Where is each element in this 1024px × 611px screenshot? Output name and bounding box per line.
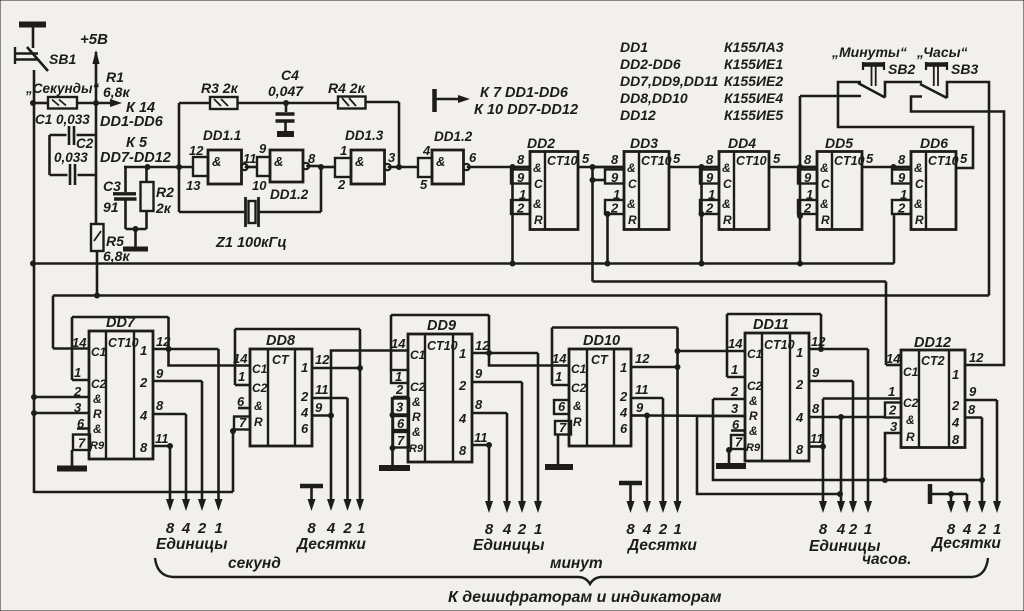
svg-text:CT10: CT10 (736, 154, 767, 168)
svg-text:8: 8 (611, 152, 619, 167)
svg-text:9: 9 (611, 170, 619, 185)
svg-text:14: 14 (552, 351, 567, 366)
svg-text:DD1.1: DD1.1 (203, 128, 241, 143)
svg-text:Десятки: Десятки (930, 535, 1001, 552)
svg-text:&: & (906, 413, 915, 427)
svg-text:8: 8 (517, 152, 525, 167)
svg-text:&: & (627, 197, 636, 211)
svg-text:R: R (915, 213, 924, 227)
svg-text:&: & (533, 197, 542, 211)
svg-text:Десятки: Десятки (626, 537, 697, 554)
svg-text:Единицы: Единицы (156, 536, 227, 553)
svg-text:DD1.2: DD1.2 (270, 187, 309, 202)
svg-text:&: & (820, 161, 829, 175)
svg-text:6: 6 (397, 416, 405, 431)
svg-text:1: 1 (952, 367, 959, 382)
svg-text:9: 9 (259, 141, 267, 156)
svg-text:R: R (628, 213, 637, 227)
svg-text:1: 1 (140, 343, 147, 358)
svg-text:4: 4 (619, 405, 628, 420)
svg-text:1: 1 (340, 143, 347, 158)
svg-text:6: 6 (620, 421, 628, 436)
svg-text:1: 1 (796, 345, 803, 360)
svg-text:2: 2 (888, 403, 897, 418)
svg-text:8: 8 (156, 398, 164, 413)
svg-text:R9: R9 (90, 440, 105, 452)
svg-text:SB3: SB3 (951, 61, 978, 77)
svg-text:&: & (749, 394, 758, 408)
svg-text:C1: C1 (252, 362, 268, 376)
svg-text:R: R (821, 213, 830, 227)
svg-text:14: 14 (72, 335, 87, 350)
svg-text:К 5: К 5 (126, 135, 148, 151)
svg-text:6: 6 (558, 399, 566, 414)
svg-text:CT: CT (272, 353, 290, 367)
svg-text:2: 2 (516, 201, 525, 216)
svg-text:3: 3 (388, 150, 396, 165)
svg-text:7: 7 (559, 420, 567, 435)
svg-text:DD1-DD6: DD1-DD6 (100, 114, 164, 130)
svg-text:C2: C2 (747, 379, 763, 393)
svg-text:2: 2 (897, 201, 906, 216)
svg-text:минут: минут (550, 555, 603, 572)
svg-text:2: 2 (337, 177, 346, 192)
svg-text:C: C (723, 177, 732, 191)
svg-text:14: 14 (728, 336, 743, 351)
svg-text:6: 6 (237, 394, 245, 409)
svg-text:4: 4 (139, 408, 148, 423)
svg-text:2: 2 (300, 389, 309, 404)
svg-text:2к: 2к (155, 200, 172, 216)
svg-text:R5: R5 (106, 233, 124, 249)
svg-text:1: 1 (555, 369, 562, 384)
svg-text:C: C (628, 177, 637, 191)
svg-text:&: & (355, 154, 364, 169)
svg-text:6: 6 (732, 417, 740, 432)
svg-text:R: R (749, 409, 758, 423)
svg-text:7: 7 (78, 436, 86, 451)
svg-text:14: 14 (391, 336, 406, 351)
svg-text:2: 2 (197, 520, 207, 537)
svg-text:2: 2 (619, 389, 628, 404)
svg-text:7: 7 (735, 435, 743, 450)
svg-text:9: 9 (812, 365, 820, 380)
svg-text:5: 5 (582, 151, 590, 166)
svg-text:2: 2 (517, 521, 527, 538)
svg-text:DD6: DD6 (920, 135, 948, 151)
svg-text:R1: R1 (106, 69, 124, 85)
svg-text:8: 8 (475, 397, 483, 412)
svg-text:11: 11 (315, 382, 329, 397)
svg-text:CT10: CT10 (427, 339, 458, 353)
svg-text:R: R (573, 415, 582, 429)
svg-text:Z1 100кГц: Z1 100кГц (215, 235, 287, 251)
svg-text:+5В: +5В (80, 31, 108, 48)
svg-text:C2: C2 (91, 377, 107, 391)
svg-text:2: 2 (951, 398, 960, 413)
svg-text:4: 4 (458, 411, 467, 426)
svg-text:К155ИЕ5: К155ИЕ5 (724, 107, 783, 123)
svg-text:&: & (533, 161, 542, 175)
svg-text:2: 2 (395, 382, 404, 397)
svg-text:„Часы“: „Часы“ (916, 44, 968, 60)
svg-text:11: 11 (635, 382, 649, 397)
svg-text:&: & (914, 197, 923, 211)
svg-text:9: 9 (706, 170, 714, 185)
svg-text:8: 8 (812, 401, 820, 416)
svg-text:13: 13 (186, 178, 201, 193)
svg-text:6: 6 (469, 150, 477, 165)
svg-text:2: 2 (610, 201, 619, 216)
svg-text:Единицы: Единицы (473, 537, 544, 554)
svg-text:К155ИЕ2: К155ИЕ2 (724, 73, 783, 89)
svg-text:&: & (722, 197, 731, 211)
svg-text:R9: R9 (409, 443, 424, 455)
svg-text:часов.: часов. (862, 551, 911, 568)
svg-text:12: 12 (156, 334, 171, 349)
svg-text:&: & (412, 395, 421, 409)
svg-text:4: 4 (422, 143, 431, 158)
svg-text:&: & (722, 161, 731, 175)
svg-text:R: R (723, 213, 732, 227)
svg-text:C2: C2 (903, 396, 919, 410)
svg-text:11: 11 (474, 430, 488, 445)
svg-text:&: & (274, 154, 283, 169)
svg-text:SB1: SB1 (49, 51, 76, 67)
svg-text:C: C (821, 177, 830, 191)
svg-text:DD1.2: DD1.2 (434, 129, 473, 144)
svg-text:DD8,DD10: DD8,DD10 (620, 90, 688, 106)
svg-text:1: 1 (214, 520, 222, 537)
svg-text:4: 4 (326, 520, 336, 537)
svg-text:DD2: DD2 (527, 135, 555, 151)
svg-text:8: 8 (706, 152, 714, 167)
svg-text:„Минуты“: „Минуты“ (831, 44, 907, 60)
svg-text:5: 5 (673, 151, 681, 166)
svg-text:8: 8 (485, 521, 494, 538)
svg-text:&: & (627, 161, 636, 175)
svg-text:11: 11 (243, 151, 257, 166)
svg-text:DD12: DD12 (914, 335, 951, 351)
svg-text:9: 9 (898, 170, 906, 185)
svg-text:R: R (254, 415, 263, 429)
svg-text:9: 9 (969, 384, 977, 399)
svg-text:8: 8 (459, 443, 467, 458)
svg-text:1: 1 (301, 360, 308, 375)
svg-text:CT10: CT10 (547, 154, 578, 168)
svg-text:&: & (436, 154, 445, 169)
svg-text:DD9: DD9 (427, 318, 456, 334)
svg-text:9: 9 (475, 366, 483, 381)
svg-text:&: & (254, 399, 263, 413)
svg-text:CT: CT (591, 353, 609, 367)
svg-text:&: & (93, 422, 102, 436)
svg-text:8: 8 (140, 440, 148, 455)
svg-text:&: & (749, 424, 758, 438)
svg-text:12: 12 (969, 350, 984, 365)
svg-text:2: 2 (658, 521, 668, 538)
svg-text:11: 11 (810, 431, 824, 446)
svg-text:11: 11 (155, 431, 169, 446)
svg-text:CT10: CT10 (764, 338, 795, 352)
svg-text:1: 1 (888, 384, 895, 399)
svg-text:3: 3 (74, 400, 82, 415)
svg-text:3: 3 (731, 401, 739, 416)
svg-text:8: 8 (626, 521, 635, 538)
svg-text:1: 1 (673, 521, 681, 538)
svg-text:0,033: 0,033 (54, 150, 88, 165)
svg-text:DD4: DD4 (728, 135, 756, 151)
svg-text:8: 8 (307, 520, 316, 537)
svg-text:5: 5 (773, 151, 781, 166)
svg-text:DD7-DD12: DD7-DD12 (100, 150, 171, 166)
svg-text:DD11: DD11 (753, 317, 789, 333)
svg-text:8: 8 (819, 521, 828, 538)
svg-text:12: 12 (475, 338, 490, 353)
svg-text:12: 12 (315, 352, 330, 367)
svg-text:4: 4 (642, 521, 652, 538)
svg-text:2: 2 (73, 384, 82, 399)
svg-text:9: 9 (636, 400, 644, 415)
svg-text:DD1.3: DD1.3 (345, 128, 384, 143)
svg-text:5: 5 (420, 177, 428, 192)
svg-text:1: 1 (357, 520, 365, 537)
svg-text:R3 2к: R3 2к (201, 80, 239, 96)
svg-text:C2: C2 (571, 381, 587, 395)
svg-text:К155ИЕ1: К155ИЕ1 (724, 56, 783, 72)
svg-text:4: 4 (181, 520, 191, 537)
svg-text:C4: C4 (281, 67, 299, 83)
svg-text:8: 8 (166, 520, 175, 537)
svg-text:12: 12 (811, 334, 826, 349)
svg-text:14: 14 (886, 351, 901, 366)
svg-text:К155ЛА3: К155ЛА3 (724, 39, 784, 55)
svg-text:DD8: DD8 (266, 333, 296, 349)
svg-text:C2: C2 (252, 381, 268, 395)
svg-text:CT10: CT10 (108, 336, 139, 350)
svg-text:12: 12 (635, 351, 650, 366)
svg-text:С2: С2 (76, 136, 94, 151)
svg-text:2: 2 (705, 201, 714, 216)
svg-text:К 10 DD7-DD12: К 10 DD7-DD12 (474, 102, 578, 118)
svg-text:&: & (212, 154, 221, 169)
svg-text:2: 2 (458, 378, 467, 393)
svg-text:8: 8 (804, 152, 812, 167)
svg-text:2: 2 (848, 521, 858, 538)
svg-text:DD1: DD1 (620, 39, 648, 55)
svg-text:6,8к: 6,8к (103, 84, 130, 100)
svg-text:R2: R2 (156, 184, 174, 200)
svg-text:5: 5 (866, 151, 874, 166)
svg-text:C1: C1 (410, 348, 426, 362)
svg-text:9: 9 (315, 400, 323, 415)
svg-text:1: 1 (620, 360, 627, 375)
svg-text:SB2: SB2 (888, 61, 915, 77)
svg-text:С1 0,033: С1 0,033 (35, 112, 90, 127)
svg-text:C2: C2 (410, 380, 426, 394)
svg-text:C1: C1 (903, 365, 919, 379)
svg-text:&: & (412, 425, 421, 439)
svg-text:К 7 DD1-DD6: К 7 DD1-DD6 (480, 85, 569, 101)
svg-text:1: 1 (238, 369, 245, 384)
svg-text:4: 4 (502, 521, 512, 538)
svg-text:8: 8 (898, 152, 906, 167)
svg-text:CT10: CT10 (928, 154, 959, 168)
svg-text:R9: R9 (746, 442, 761, 454)
svg-text:4: 4 (951, 415, 960, 430)
svg-text:R: R (93, 407, 102, 421)
svg-text:DD7,DD9,DD11: DD7,DD9,DD11 (620, 73, 719, 89)
svg-text:Десятки: Десятки (295, 536, 366, 553)
svg-text:4: 4 (795, 410, 804, 425)
svg-text:CT10: CT10 (641, 154, 672, 168)
svg-text:C1: C1 (571, 362, 587, 376)
svg-text:&: & (573, 399, 582, 413)
svg-text:8: 8 (968, 402, 976, 417)
svg-text:7: 7 (239, 415, 247, 430)
svg-text:R: R (534, 213, 543, 227)
svg-text:C: C (915, 177, 924, 191)
svg-text:„Секунды“: „Секунды“ (25, 81, 100, 96)
svg-text:&: & (914, 161, 923, 175)
svg-text:DD3: DD3 (630, 135, 658, 151)
svg-text:8: 8 (796, 442, 804, 457)
svg-text:1: 1 (534, 521, 542, 538)
svg-text:C: C (534, 177, 543, 191)
svg-text:&: & (820, 197, 829, 211)
svg-text:4: 4 (300, 405, 309, 420)
svg-text:91: 91 (103, 199, 119, 215)
svg-text:4: 4 (836, 521, 846, 538)
svg-text:&: & (93, 392, 102, 406)
svg-text:DD10: DD10 (583, 333, 620, 349)
svg-text:12: 12 (189, 143, 204, 158)
svg-text:5: 5 (960, 151, 968, 166)
svg-text:2: 2 (803, 201, 812, 216)
svg-text:8: 8 (308, 151, 316, 166)
svg-text:DD12: DD12 (620, 107, 656, 123)
svg-text:К155ИЕ4: К155ИЕ4 (724, 90, 783, 106)
svg-text:6: 6 (77, 416, 85, 431)
svg-text:C3: C3 (103, 178, 121, 194)
svg-text:DD2-DD6: DD2-DD6 (620, 56, 681, 72)
svg-text:1: 1 (864, 521, 872, 538)
svg-text:9: 9 (517, 170, 525, 185)
svg-text:2: 2 (342, 520, 352, 537)
svg-text:2: 2 (139, 375, 148, 390)
svg-text:C1: C1 (91, 345, 107, 359)
svg-text:К дешифраторам и индикаторам: К дешифраторам и индикаторам (448, 589, 722, 606)
svg-text:CT2: CT2 (921, 354, 945, 368)
svg-text:9: 9 (804, 170, 812, 185)
svg-text:9: 9 (156, 366, 164, 381)
svg-text:1: 1 (731, 362, 738, 377)
svg-text:DD5: DD5 (825, 135, 853, 151)
svg-text:7: 7 (397, 433, 405, 448)
svg-text:секунд: секунд (228, 555, 281, 572)
svg-text:8: 8 (952, 432, 960, 447)
svg-text:10: 10 (252, 178, 267, 193)
svg-text:R: R (906, 430, 915, 444)
svg-text:2: 2 (730, 384, 739, 399)
svg-text:2: 2 (795, 377, 804, 392)
svg-text:R: R (412, 410, 421, 424)
svg-text:CT10: CT10 (834, 154, 865, 168)
svg-text:C1: C1 (747, 347, 763, 361)
svg-text:3: 3 (396, 400, 404, 415)
svg-text:0,047: 0,047 (268, 83, 304, 99)
svg-text:1: 1 (74, 365, 81, 380)
svg-text:R4 2к: R4 2к (328, 80, 366, 96)
svg-text:1: 1 (459, 346, 466, 361)
svg-text:6: 6 (301, 421, 309, 436)
